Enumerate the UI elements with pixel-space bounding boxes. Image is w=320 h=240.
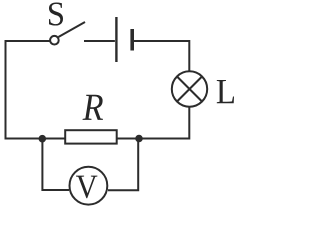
switch S blade (58, 22, 85, 37)
label R (resistor, italic) (83, 95, 104, 120)
label V (voltmeter) (76, 176, 97, 199)
wire: node A down and right to voltmeter (42, 139, 69, 191)
wire: bottom-left horizontal (corner to resistor, through node A) (5, 138, 66, 140)
voltmeter V circle (70, 167, 108, 205)
label L (lamp) (217, 80, 234, 103)
wire: battery to top-right corner, down to lamp (134, 41, 190, 71)
wire: switch to battery positive plate (84, 40, 115, 42)
battery positive plate (long) (115, 17, 117, 62)
wire: lamp to bottom-right corner, left to resistor (through node B) (117, 107, 190, 139)
label S (switch) (49, 3, 63, 26)
lamp X diagonal 1 (177, 77, 202, 102)
lamp L circle (172, 71, 207, 106)
node A junction dot (39, 135, 47, 143)
battery negative plate (short, thick) (130, 29, 134, 51)
wire: left vertical rail (5, 40, 7, 140)
resistor R body (65, 130, 117, 143)
lamp X diagonal 2 (177, 77, 202, 102)
switch S contact circle (50, 36, 59, 45)
node B junction dot (135, 135, 143, 143)
wire: node B down and left to voltmeter (108, 139, 138, 191)
wire: top-left horizontal (switch to top-left corner) (6, 40, 50, 42)
